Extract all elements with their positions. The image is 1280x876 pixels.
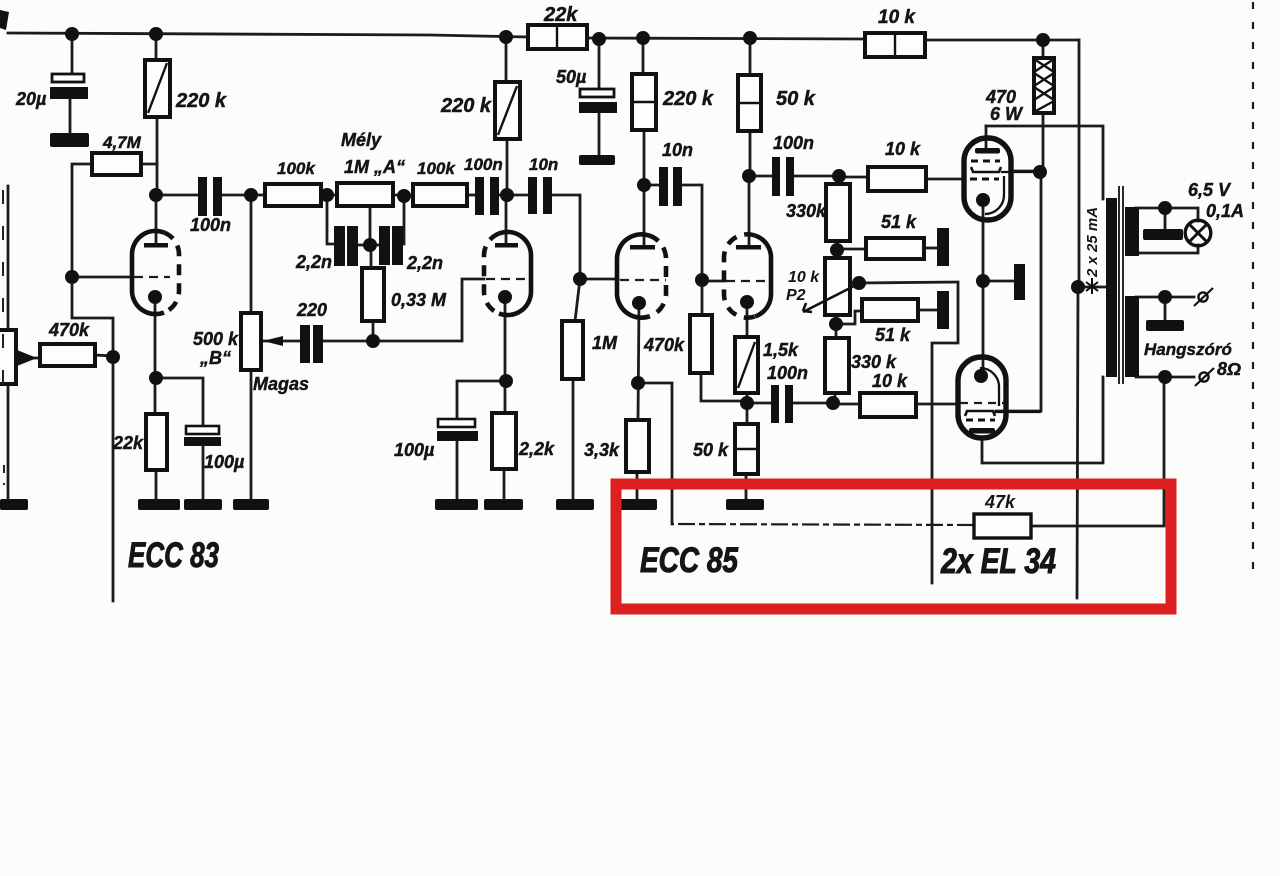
svg-text:220 k: 220 k — [440, 95, 492, 117]
svg-text:2,2n: 2,2n — [295, 252, 332, 272]
svg-text:3,3k: 3,3k — [584, 440, 620, 460]
svg-text:220 k: 220 k — [175, 90, 227, 112]
svg-text:10n: 10n — [662, 140, 693, 160]
svg-text:50 k: 50 k — [776, 88, 816, 110]
svg-text:8Ω: 8Ω — [1217, 359, 1241, 379]
svg-text:50µ: 50µ — [556, 67, 587, 87]
svg-text:51 k: 51 k — [875, 325, 911, 345]
svg-text:470k: 470k — [643, 335, 685, 355]
svg-text:100n: 100n — [767, 363, 808, 383]
svg-text:470k: 470k — [48, 320, 90, 340]
svg-text:2x EL 34: 2x EL 34 — [940, 542, 1056, 581]
svg-text:100n: 100n — [464, 155, 503, 174]
svg-text:330 k: 330 k — [851, 352, 897, 372]
svg-text:1M: 1M — [592, 333, 618, 353]
svg-text:500 k: 500 k — [193, 329, 239, 349]
svg-text:100k: 100k — [277, 159, 316, 178]
svg-text:22k: 22k — [112, 433, 144, 453]
svg-text:10 k: 10 k — [872, 371, 908, 391]
svg-text:330k: 330k — [786, 201, 827, 221]
svg-text:0,1A: 0,1A — [1206, 201, 1244, 221]
svg-text:2,2n: 2,2n — [406, 253, 443, 273]
svg-text:10 k: 10 k — [885, 139, 921, 159]
svg-text:22k: 22k — [543, 4, 578, 26]
svg-text:Magas: Magas — [253, 374, 309, 394]
svg-text:10 k: 10 k — [878, 7, 916, 28]
svg-text:10 k: 10 k — [788, 269, 820, 286]
svg-text:100n: 100n — [190, 215, 231, 235]
svg-text:1M „A“: 1M „A“ — [344, 157, 405, 177]
svg-text:100n: 100n — [773, 133, 814, 153]
svg-text:100µ: 100µ — [394, 440, 435, 460]
svg-text:0,33 M: 0,33 M — [391, 290, 447, 310]
svg-text:10n: 10n — [529, 155, 558, 174]
svg-text:ECC 85: ECC 85 — [640, 541, 738, 580]
svg-text:50 k: 50 k — [693, 440, 729, 460]
svg-text:2,2k: 2,2k — [518, 439, 555, 459]
svg-text:100µ: 100µ — [204, 452, 245, 472]
svg-text:220 k: 220 k — [662, 88, 714, 110]
svg-text:4,7M: 4,7M — [102, 133, 142, 152]
svg-text:1,5k: 1,5k — [763, 340, 799, 360]
svg-text:20µ: 20µ — [15, 89, 47, 109]
svg-text:ECC 83: ECC 83 — [128, 536, 219, 575]
svg-text:„B“: „B“ — [199, 348, 231, 368]
svg-text:Mély: Mély — [341, 130, 382, 150]
svg-text:51 k: 51 k — [881, 212, 917, 232]
svg-text:P2: P2 — [786, 287, 806, 304]
svg-text:6,5 V: 6,5 V — [1188, 180, 1232, 200]
svg-text:6 W: 6 W — [990, 104, 1024, 124]
svg-text:47k: 47k — [984, 492, 1016, 512]
svg-text:Hangszóró: Hangszóró — [1144, 340, 1232, 359]
svg-text:220: 220 — [296, 300, 327, 320]
svg-text:100k: 100k — [417, 159, 456, 178]
svg-text:2 x 25 mA: 2 x 25 mA — [1084, 207, 1101, 278]
